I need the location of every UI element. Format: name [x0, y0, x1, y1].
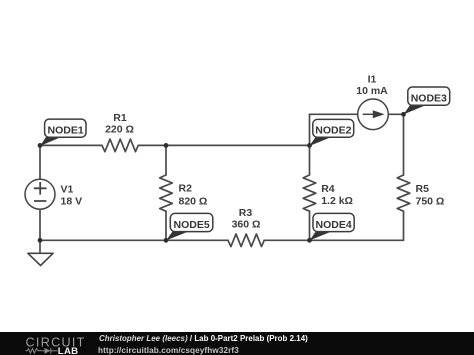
- wire I1 left lead: [310, 113, 358, 115]
- svg-text:820 Ω: 820 Ω: [179, 195, 208, 207]
- label I1 value: [356, 74, 388, 97]
- svg-text:NODE2: NODE2: [315, 125, 351, 137]
- footer bar: [0, 332, 474, 355]
- svg-text:220 Ω: 220 Ω: [105, 123, 134, 135]
- CircuitLab logo: [0, 332, 92, 355]
- svg-text:NODE1: NODE1: [48, 124, 84, 136]
- node flag NODE1: [40, 119, 86, 146]
- junction node D (NODE3 anchor): [401, 112, 406, 117]
- label R2 value: [179, 183, 208, 208]
- svg-text:R3: R3: [239, 207, 253, 219]
- junction node E (NODE5 anchor): [164, 238, 169, 243]
- node flag NODE3: [404, 87, 450, 114]
- current source I1: [358, 99, 389, 130]
- wire R2 bottom lead: [165, 211, 167, 240]
- resistor R2 zigzag: [160, 175, 173, 211]
- svg-text:10 mA: 10 mA: [356, 85, 388, 97]
- node flag NODE2: [309, 119, 353, 146]
- svg-text:R5: R5: [416, 183, 430, 195]
- resistor R4 zigzag: [303, 175, 316, 211]
- svg-text:750 Ω: 750 Ω: [416, 195, 445, 207]
- wire top-right: R1 to NODE2: [138, 144, 309, 146]
- wire bottom-left: ground run to R3: [40, 239, 228, 241]
- label R4 value: [321, 183, 353, 207]
- svg-text:I1: I1: [368, 74, 377, 86]
- wire R4 bottom lead: [309, 211, 311, 240]
- svg-text:360 Ω: 360 Ω: [232, 218, 261, 230]
- svg-text:1.2 kΩ: 1.2 kΩ: [321, 195, 353, 207]
- wire I1 right lead: [388, 113, 403, 115]
- svg-text:NODE4: NODE4: [316, 219, 352, 231]
- resistor R1 zigzag: [102, 139, 138, 152]
- footer url line 2: [98, 346, 239, 355]
- node flag NODE5: [166, 213, 213, 240]
- resistor R3 zigzag: [228, 234, 264, 247]
- junction node F (NODE4 anchor): [307, 238, 312, 243]
- wire right rail bottom: R5 to bottom wire: [403, 211, 405, 240]
- resistor R5 zigzag: [397, 175, 410, 211]
- wire bottom-right: R3 to right rail: [264, 239, 403, 241]
- wire V1 bottom lead: [39, 209, 41, 240]
- voltage source V1: [25, 179, 55, 209]
- label V1 value: [61, 183, 83, 207]
- footer attribution line 1: [99, 334, 308, 343]
- junction ground node: [38, 238, 43, 243]
- label R3 value: [232, 207, 261, 231]
- svg-text:NODE5: NODE5: [174, 219, 210, 231]
- node flag NODE4: [310, 213, 355, 240]
- svg-text:NODE3: NODE3: [411, 93, 447, 105]
- wire top-left: NODE1 to R1: [40, 144, 102, 146]
- svg-text:18 V: 18 V: [61, 195, 83, 207]
- wire R2 top lead: [165, 145, 167, 175]
- ground: [28, 240, 53, 265]
- wire R4 top lead: [309, 145, 311, 175]
- junction node C (NODE2 anchor): [307, 143, 312, 148]
- label R5 value: [416, 183, 445, 207]
- label R1 value: [105, 112, 134, 135]
- wire riser NODE2 up to I1 branch: [309, 114, 311, 145]
- svg-text:V1: V1: [61, 183, 74, 195]
- svg-text:R2: R2: [179, 183, 193, 195]
- junction node B (R1/R2 tee): [164, 143, 169, 148]
- svg-text:R1: R1: [113, 112, 127, 124]
- svg-text:LAB: LAB: [58, 346, 79, 355]
- junction node A (NODE1 anchor): [38, 143, 43, 148]
- wire right rail top: NODE3 to R5: [403, 114, 405, 175]
- svg-text:R4: R4: [321, 183, 335, 195]
- wire V1 top lead: [39, 145, 41, 179]
